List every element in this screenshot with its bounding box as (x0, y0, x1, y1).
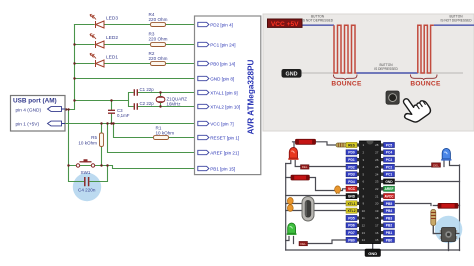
pin1 RES label (346, 142, 357, 147)
svg-text:GND: GND (286, 72, 298, 78)
brace 2 (411, 75, 438, 81)
IC pin stubs (357, 144, 384, 242)
hand cursor (396, 90, 432, 126)
svg-text:GND: GND (385, 180, 393, 184)
wire AREF branch (108, 124, 195, 153)
pin18 PB4 label (384, 208, 395, 213)
svg-text:PD7: PD7 (348, 231, 355, 235)
capacitor C4 (69, 177, 108, 193)
svg-text:PB4: PB4 (386, 209, 393, 213)
pin10 XTL2 label (346, 208, 357, 213)
LED LED3 (90, 14, 104, 28)
svg-text:16: 16 (375, 231, 379, 235)
wire crystal branch (75, 93, 195, 107)
svg-text:AVCC: AVCC (384, 195, 394, 199)
wire LED2 row (75, 44, 195, 46)
svg-text:C4 220n: C4 220n (78, 188, 96, 193)
pin11 PD5 label (346, 215, 357, 220)
wire GND right row (396, 181, 460, 183)
pin PB1 [pin 15] (198, 166, 209, 170)
wire PC2 row to blue LED (396, 160, 460, 167)
svg-text:SW1: SW1 (81, 170, 91, 175)
svg-text:24: 24 (375, 172, 379, 176)
svg-text:AREF: AREF (385, 187, 394, 191)
push button (tactile) (440, 228, 457, 242)
pin12 PD6 label (346, 223, 357, 228)
pin19 PB5 label (384, 201, 395, 206)
IC ATmega DIP-28 body (360, 141, 381, 244)
svg-text:28: 28 (375, 143, 379, 147)
svg-text:PC4: PC4 (386, 151, 393, 155)
wire green LED legs and to PB0 (286, 237, 346, 244)
svg-text:PD2 [pin 4]: PD2 [pin 4] (210, 22, 233, 27)
resistor small olive (reset pullup) (336, 143, 347, 147)
wire GND bottom stub (372, 244, 374, 250)
svg-text:PC5: PC5 (386, 143, 393, 147)
pin3 PD1 label (346, 157, 357, 162)
scope panel background (263, 14, 474, 131)
resistor R1 (154, 136, 169, 140)
pin13 PD7 label (346, 230, 357, 235)
crystal 16MHz (302, 197, 314, 222)
svg-text:GND: GND (348, 195, 356, 199)
pin26 PC3 label (384, 157, 395, 162)
pin AREF [pin 21] (198, 150, 209, 154)
svg-text:15: 15 (375, 238, 379, 242)
LED blue (441, 148, 451, 160)
svg-text:GND: GND (368, 251, 377, 256)
crystal Z1 16MHz (160, 93, 162, 107)
capacitor ceramic XTAL2 (287, 205, 293, 212)
svg-text:220 Ohm: 220 Ohm (149, 37, 168, 42)
svg-text:11: 11 (362, 216, 365, 220)
wire XTAL1 row (286, 203, 346, 205)
junction dots (65, 43, 162, 166)
svg-text:220 Ohm: 220 Ohm (149, 56, 168, 61)
capacitor C4 highlight circle (73, 173, 101, 201)
svg-text:BOUNCE: BOUNCE (410, 81, 441, 88)
svg-text:LED1: LED1 (106, 55, 118, 61)
resistor left middle (red) (291, 175, 309, 180)
resistor right (red) (438, 203, 458, 208)
switch SW1 (76, 160, 94, 167)
svg-text:USB port (AM): USB port (AM) (13, 98, 57, 105)
pin VCC [pin 7] (198, 121, 209, 125)
pin9 XTL1 label (346, 201, 357, 206)
wire inner left vertical (285, 164, 287, 251)
svg-text:PB2: PB2 (386, 224, 393, 228)
svg-text:26: 26 (375, 158, 379, 162)
svg-text:RESET [pin 1]: RESET [pin 1] (210, 135, 239, 140)
svg-text:PB0: PB0 (348, 238, 355, 242)
pin17 PB3 label (384, 215, 395, 220)
svg-text:PC1: PC1 (386, 173, 393, 177)
pin4 PD2 label (346, 164, 357, 169)
ground bus wire (65, 25, 75, 166)
svg-text:17: 17 (375, 224, 379, 228)
svg-text:13: 13 (362, 231, 366, 235)
svg-text:PB3: PB3 (386, 216, 393, 220)
svg-text:R5: R5 (91, 135, 97, 140)
svg-text:22: 22 (375, 187, 379, 191)
svg-text:PB1: PB1 (386, 231, 393, 235)
capacitor C1 (134, 89, 137, 95)
svg-text:PD3: PD3 (348, 173, 355, 177)
svg-text:27: 27 (375, 151, 379, 155)
svg-text:AREF [pin 21]: AREF [pin 21] (210, 150, 239, 155)
pin24 PC1 label (384, 172, 395, 177)
svg-text:IS DEPRESSED: IS DEPRESSED (374, 67, 398, 71)
svg-text:VCC [pin 7]: VCC [pin 7] (210, 121, 234, 126)
svg-text:21: 21 (375, 194, 379, 198)
resistor top-left (red) (296, 139, 316, 144)
svg-text:19: 19 (375, 209, 379, 213)
svg-text:IS NOT DEPRESSED: IS NOT DEPRESSED (440, 19, 472, 23)
IC pins (198, 22, 240, 171)
LED green (287, 223, 297, 235)
svg-text:VCC: VCC (348, 187, 356, 191)
svg-text:DEL: DEL (302, 165, 308, 169)
pin PD2 [pin 4] (198, 22, 209, 26)
svg-text:XTAL2 [pin 10]: XTAL2 [pin 10] (210, 104, 240, 109)
svg-text:PC2: PC2 (386, 165, 393, 169)
svg-text:PB0: PB0 (386, 238, 393, 242)
VCC +5V badge (268, 19, 303, 27)
label blue LED (432, 163, 441, 167)
pin14 PB0 label (346, 237, 357, 242)
USB port box (11, 96, 66, 132)
wire right frame vertical (459, 165, 461, 251)
capacitor C2 (134, 103, 137, 109)
svg-text:XTL2: XTL2 (347, 209, 355, 213)
svg-text:BOUNCE: BOUNCE (331, 81, 362, 88)
pin15b PB0 label (384, 237, 395, 242)
svg-text:RES: RES (348, 143, 356, 147)
svg-text:10: 10 (362, 209, 366, 213)
capacitor C3 (108, 110, 115, 113)
pin RESET [pin 1] (198, 135, 209, 139)
push button icon (386, 91, 399, 104)
svg-text:25: 25 (375, 165, 379, 169)
wire PB5 row to resistor (396, 204, 460, 206)
pin8 GND label (346, 194, 357, 199)
capacitor ceramic VCC (335, 186, 341, 194)
wire GND row (75, 78, 195, 80)
svg-text:pin 1 (+5V): pin 1 (+5V) (16, 122, 40, 128)
svg-text:C1 22p: C1 22p (140, 87, 155, 92)
svg-text:14: 14 (362, 238, 366, 242)
svg-text:IS NOT DEPRESSED: IS NOT DEPRESSED (302, 19, 334, 23)
resistor R2 (151, 62, 166, 66)
wire C4 loop (69, 166, 108, 182)
wire top resistor to RES pin (293, 142, 337, 149)
svg-text:pin 4 (GND): pin 4 (GND) (16, 107, 42, 113)
label green LED (299, 241, 308, 245)
svg-text:LED3: LED3 (106, 16, 118, 22)
wire red LED right leg to label to PD2 (295, 161, 346, 167)
pin16 PB2 label (384, 223, 395, 228)
svg-text:16MHz: 16MHz (167, 102, 181, 107)
svg-text:PB0 [pin 14]: PB0 [pin 14] (210, 61, 235, 66)
wire VCC row (65, 123, 195, 125)
pin XTAL2 [pin 10] (198, 104, 209, 108)
button highlight glow (435, 216, 463, 244)
bounce burst 1 (334, 25, 357, 73)
wire bottom rail (286, 249, 460, 251)
svg-text:PC3: PC3 (386, 158, 393, 162)
wire R5 column (101, 124, 103, 166)
IC left pin labels (346, 142, 357, 242)
pin2 PD0 label (346, 150, 357, 155)
pin21 AVCC label (384, 194, 395, 199)
LED LED1 (90, 53, 104, 67)
pin25 PC2 label (384, 164, 395, 169)
wire LED1 row (75, 63, 195, 65)
pin27 PC4 label (384, 150, 395, 155)
svg-text:AVR ATMega328PU: AVR ATMega328PU (247, 59, 256, 134)
LED LED2 (90, 34, 104, 48)
wire XTAL2 row (286, 210, 346, 212)
svg-text:10 kOhm: 10 kOhm (78, 141, 97, 146)
pin22 AREF label (384, 186, 395, 191)
svg-text:12: 12 (362, 224, 366, 228)
pin GND [pin 8] (198, 76, 209, 80)
LED red (288, 147, 298, 159)
pin7 VCC label (346, 186, 357, 191)
svg-text:18: 18 (375, 216, 379, 220)
wire RESET branch (114, 124, 195, 138)
svg-text:PC1 [pin 24]: PC1 [pin 24] (210, 42, 235, 47)
pin5 PD3 label (346, 172, 357, 177)
GND reference line (302, 72, 464, 74)
svg-text:DEL: DEL (300, 242, 306, 246)
wire tan resistor to button (433, 226, 459, 251)
GND badge (282, 69, 302, 78)
pin PB0 [pin 14] (198, 61, 209, 65)
svg-text:XTAL1 [pin 9]: XTAL1 [pin 9] (210, 90, 238, 95)
GND label bottom (365, 249, 381, 257)
wire resistor2 leads (286, 178, 346, 191)
svg-text:PD0: PD0 (348, 151, 355, 155)
svg-text:PB1 [pin 15]: PB1 [pin 15] (210, 166, 235, 171)
pin PC1 [pin 24] (198, 42, 209, 46)
IC pin numbers (362, 143, 379, 242)
label red LED (301, 165, 310, 169)
IC right pin labels (384, 142, 395, 242)
svg-text:PD2: PD2 (348, 165, 355, 169)
svg-text:DEL: DEL (433, 163, 439, 167)
IC box U1 AVR ATMega328PU (195, 16, 261, 175)
svg-text:PD4: PD4 (348, 180, 355, 184)
svg-text:PD6: PD6 (348, 224, 355, 228)
resistor R3 (151, 43, 166, 47)
pin6 PD4 label (346, 179, 357, 184)
svg-text:20: 20 (375, 202, 379, 206)
svg-text:PD5: PD5 (348, 216, 355, 220)
pin28 PC5 label (384, 142, 395, 147)
pin23 GND label (384, 179, 395, 184)
wire GND left row (286, 195, 346, 197)
brace 1 (334, 75, 358, 81)
svg-text:10 kOhm: 10 kOhm (156, 131, 175, 136)
svg-text:0,1mF: 0,1mF (117, 113, 130, 118)
svg-text:23: 23 (375, 180, 379, 184)
svg-text:PB5: PB5 (386, 202, 393, 206)
resistor tan vertical (431, 210, 436, 226)
wire C3 column (111, 101, 113, 124)
svg-text:C2 22p: C2 22p (140, 101, 155, 106)
svg-text:LED2: LED2 (106, 35, 118, 41)
signal trace blue VCC level (302, 25, 474, 73)
svg-text:PD1: PD1 (348, 158, 355, 162)
capacitor ceramic XTAL1 (287, 198, 293, 205)
wire LED3 row (75, 24, 195, 26)
svg-text:VCC +5V: VCC +5V (271, 21, 299, 28)
svg-text:XTL1: XTL1 (347, 202, 355, 206)
svg-text:220 Ohm: 220 Ohm (149, 17, 168, 22)
resistor R4 (151, 23, 166, 27)
pin XTAL1 [pin 9] (198, 90, 209, 94)
wire switch row to PB1 (69, 166, 195, 169)
bounce burst 2 (418, 25, 434, 73)
svg-text:GND [pin 8]: GND [pin 8] (210, 76, 234, 81)
pin15 PB1 label (384, 230, 395, 235)
resistor R5 (100, 133, 104, 147)
wire left outer vertical (286, 161, 291, 164)
